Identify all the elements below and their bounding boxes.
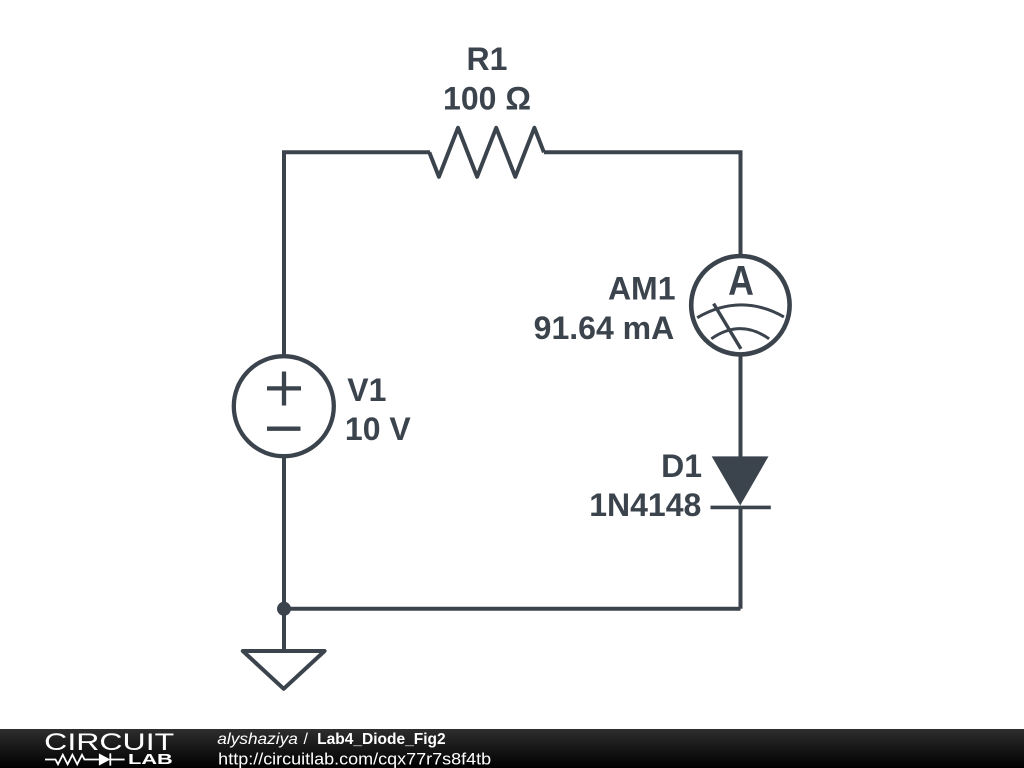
diode D1 cathode bar xyxy=(711,506,771,510)
svg-text:http://circuitlab.com/cqx77r7s: http://circuitlab.com/cqx77r7s8f4tb xyxy=(218,751,491,768)
bottom wire xyxy=(284,607,741,611)
footer logo resistor-diode icon xyxy=(45,753,125,765)
voltage source V1 circle xyxy=(234,356,334,456)
ammeter needle xyxy=(714,304,741,349)
ammeter scale arc long xyxy=(697,305,784,318)
svg-text:LAB: LAB xyxy=(128,751,173,768)
svg-text:R1: R1 xyxy=(467,41,508,77)
svg-text:AM1: AM1 xyxy=(608,271,676,307)
svg-text:1N4148: 1N4148 xyxy=(589,487,701,523)
ammeter scale arc short xyxy=(711,329,769,339)
ground stem wire xyxy=(282,609,286,650)
svg-text:100 Ω: 100 Ω xyxy=(443,81,531,117)
svg-text:A: A xyxy=(728,259,754,305)
svg-text:91.64 mA: 91.64 mA xyxy=(534,310,675,346)
svg-text:10 V: 10 V xyxy=(345,411,411,447)
V1 plus sign xyxy=(267,372,301,406)
ground symbol xyxy=(243,651,325,689)
diode D1 triangle xyxy=(712,456,769,505)
node dot at bottom-left junction xyxy=(277,602,291,616)
wire top-right: resistor to ammeter xyxy=(544,152,741,256)
svg-text:/: / xyxy=(304,731,309,748)
wire bottom-left up to V1 bottom xyxy=(282,456,286,609)
wire ammeter to diode xyxy=(739,354,743,457)
svg-text:D1: D1 xyxy=(661,448,702,484)
V1 minus sign xyxy=(267,427,301,431)
resistor R1 xyxy=(429,128,544,177)
svg-text:alyshaziya: alyshaziya xyxy=(217,731,298,748)
ammeter AM1 circle xyxy=(691,256,789,354)
svg-text:V1: V1 xyxy=(347,372,386,408)
wire left-top: V1 top to resistor start xyxy=(284,152,430,357)
wire diode to bottom wire xyxy=(739,507,743,608)
footer bar xyxy=(0,729,1024,768)
svg-text:Lab4_Diode_Fig2: Lab4_Diode_Fig2 xyxy=(317,731,446,748)
